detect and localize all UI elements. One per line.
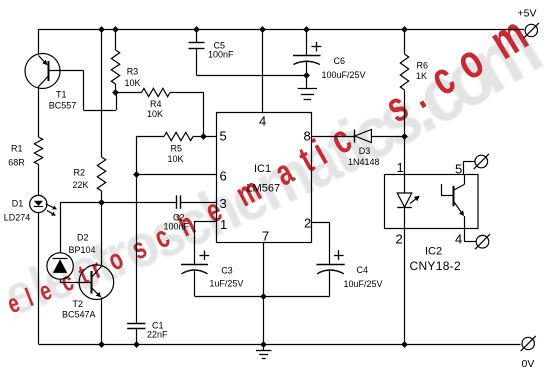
capacitor C4 [316, 250, 382, 289]
wire R2 to T2 collector node [101, 191, 103, 202]
svg-text:1K: 1K [416, 71, 427, 81]
svg-text:BC557: BC557 [49, 100, 77, 110]
wire node to D2 [60, 202, 101, 253]
wire node to R4 [116, 92, 142, 94]
wire C3 to ground bus [194, 271, 196, 296]
resistor R2 [73, 157, 106, 191]
wire node to C2 [101, 202, 176, 204]
svg-text:68R: 68R [8, 157, 25, 167]
wire rail to C5 [196, 29, 198, 42]
diode D1 LED [4, 195, 57, 222]
transistor T1 [25, 54, 76, 111]
node C1 bottom [133, 341, 140, 348]
svg-text:100nF: 100nF [164, 222, 190, 232]
wire R6 to node [404, 90, 406, 136]
node R6 top [401, 26, 408, 33]
wire R5 left bend [137, 136, 165, 138]
svg-text:IC1: IC1 [254, 163, 271, 175]
wire C1 to bottom rail [136, 328, 138, 344]
terminal IC2 emitter [476, 235, 489, 248]
svg-text:2: 2 [304, 216, 311, 231]
IC2 LED [397, 175, 420, 229]
IC2 phototransistor [441, 175, 464, 229]
svg-text:7: 7 [262, 229, 269, 244]
node ground bus [260, 293, 267, 300]
svg-text:IC2: IC2 [425, 246, 442, 258]
wire D2 to T2 base [60, 279, 92, 282]
ground symbol bottom [256, 344, 272, 359]
node R3 R4 base [112, 89, 119, 96]
wire T1 emitter to rail [38, 29, 40, 55]
optocoupler IC2 box [385, 175, 479, 274]
svg-text:4: 4 [259, 114, 266, 129]
svg-text:10K: 10K [168, 154, 184, 164]
svg-text:5: 5 [455, 162, 462, 177]
wire R3 to node [115, 84, 117, 93]
resistor R6 [400, 54, 428, 90]
svg-text:22K: 22K [73, 180, 89, 190]
wire 0V bottom rail [39, 344, 521, 346]
wire ground bus [195, 296, 330, 298]
wire pin1 to C3 [195, 221, 217, 265]
svg-text:22nF: 22nF [147, 330, 168, 340]
node pin5 [200, 133, 207, 140]
svg-text:LD274: LD274 [4, 212, 31, 222]
svg-text:R2: R2 [74, 168, 86, 178]
resistor R1 [8, 137, 42, 167]
wire rail to C6 [306, 29, 308, 56]
capacitor C5 [189, 40, 235, 59]
wire IC2 pin2 to rail [404, 229, 406, 344]
wire pin8 to D3 [312, 136, 354, 138]
svg-text:LM567: LM567 [247, 183, 281, 195]
svg-text:BP104: BP104 [69, 245, 96, 255]
node pin4 rail [259, 26, 266, 33]
svg-text:3: 3 [220, 196, 227, 211]
capacitor C6 [293, 42, 366, 80]
node R2 top [98, 26, 105, 33]
resistor R4 [142, 88, 171, 119]
wire pin6 to C1 [136, 174, 138, 324]
terminal IC2 collector [475, 155, 488, 168]
node R3 top [112, 26, 119, 33]
svg-text:1: 1 [397, 160, 404, 175]
wire C4 to ground bus [329, 271, 331, 296]
svg-text:10K: 10K [125, 78, 141, 88]
wire C6 down [306, 62, 308, 75]
diode D3 [348, 130, 380, 168]
svg-text:C4: C4 [357, 265, 369, 275]
svg-text:R1: R1 [11, 144, 23, 154]
wire +5V top rail [39, 29, 525, 31]
svg-text:4: 4 [455, 232, 462, 247]
wire IC2 pin5 to terminal [463, 162, 474, 175]
wire T2 collector [101, 202, 103, 266]
svg-text:2: 2 [396, 232, 403, 247]
svg-text:D3: D3 [359, 146, 371, 156]
node R6 D3 [401, 133, 408, 140]
wire R1 to D1 [38, 165, 40, 196]
wire pin7 down [263, 242, 265, 296]
svg-text:10K: 10K [147, 109, 163, 119]
node pin7 rail [260, 341, 267, 348]
wire rail to R6 [404, 29, 406, 54]
node C6 C5 junction [303, 72, 310, 79]
ground symbol C6 [298, 75, 317, 99]
wire T1 collector to R1 [38, 87, 40, 138]
wire C5 down [196, 48, 306, 75]
wire node to IC2 pin1 [404, 136, 406, 175]
svg-text:BC547A: BC547A [62, 310, 96, 320]
wire IC2 pin4 to terminal [464, 229, 476, 242]
photodiode D2 [47, 233, 96, 280]
svg-text:C3: C3 [221, 265, 233, 275]
wire pin2 to C4 [312, 223, 330, 265]
node T2 collector [98, 199, 105, 206]
node pin6 [133, 171, 140, 178]
svg-text:T2: T2 [73, 299, 84, 309]
wire R4 to pin5 node [170, 93, 204, 137]
node C6 top [303, 26, 310, 33]
svg-text:C6: C6 [334, 56, 346, 66]
wire R5 to pin5 node [193, 136, 204, 138]
capacitor C1 [127, 321, 168, 340]
op-amp IC1 LM567 box [217, 113, 312, 243]
svg-text:100uF/25V: 100uF/25V [322, 70, 366, 80]
node T2 emitter bottom [98, 341, 105, 348]
node IC2 pin2 rail [401, 341, 408, 348]
wire D3 to node [371, 136, 404, 138]
svg-text:D2: D2 [77, 233, 89, 243]
svg-text:10uF/25V: 10uF/25V [344, 279, 383, 289]
wire R5 bend to pin6 [136, 136, 138, 174]
terminal 0V [521, 336, 536, 369]
wire pin7 to rail [263, 296, 265, 344]
capacitor C2 [164, 195, 190, 231]
wire C2 to pin3 [181, 202, 217, 204]
svg-text:R5: R5 [171, 144, 183, 154]
svg-text:8: 8 [304, 129, 311, 144]
wire T1 base [49, 71, 117, 111]
capacitor C3 [181, 251, 243, 289]
svg-text:R3: R3 [127, 67, 139, 77]
svg-text:D1: D1 [12, 199, 24, 209]
wire rail to pin4 [262, 29, 264, 113]
node C5 top [193, 26, 200, 33]
wire T2 emitter to rail [101, 297, 103, 344]
wire rail to R2 [101, 29, 103, 157]
svg-text:R4: R4 [150, 99, 162, 109]
svg-text:5: 5 [220, 129, 227, 144]
svg-text:100nF: 100nF [208, 50, 234, 60]
transistor T2 [62, 265, 114, 320]
svg-text:1uF/25V: 1uF/25V [209, 279, 243, 289]
resistor R3 [111, 50, 140, 88]
wire pin5 stub [204, 136, 217, 138]
svg-text:1N4148: 1N4148 [348, 157, 380, 167]
svg-text:0V: 0V [522, 358, 535, 369]
svg-text:6: 6 [220, 169, 227, 184]
svg-text:CNY18-2: CNY18-2 [410, 259, 461, 273]
svg-text:1: 1 [220, 217, 227, 232]
wire D1 to bottom rail [38, 213, 40, 344]
svg-text:+5V: +5V [518, 8, 537, 20]
svg-text:T1: T1 [56, 90, 67, 100]
svg-text:R6: R6 [417, 61, 429, 71]
terminal +5V [518, 8, 539, 39]
resistor R5 [164, 132, 193, 164]
wire pin6 to IC1 [137, 174, 217, 176]
wire rail to R3 [115, 29, 117, 50]
